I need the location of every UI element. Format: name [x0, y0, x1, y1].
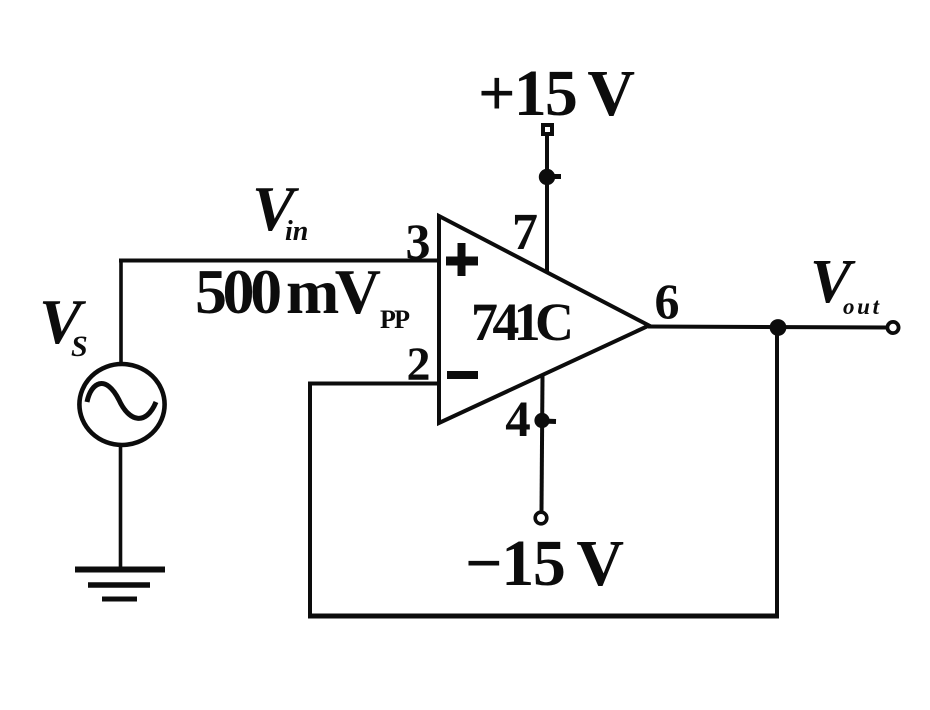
wire feedback left vertical	[308, 382, 312, 619]
wire feedback right vertical	[775, 327, 779, 619]
wire source bottom vertical	[119, 445, 123, 569]
label VS	[39, 286, 88, 363]
wire pin 2 horizontal	[308, 382, 439, 386]
op-amp U1 triangle	[439, 216, 649, 423]
wire pin 7 vertical	[545, 134, 549, 272]
junction dot output node	[770, 319, 787, 336]
terminal Vout open circle	[887, 322, 898, 333]
label Vin	[252, 173, 308, 247]
terminal +15V open square	[543, 125, 552, 134]
svg-text:PP: PP	[380, 305, 410, 334]
svg-text:3: 3	[406, 213, 431, 269]
svg-text:6: 6	[655, 273, 680, 329]
svg-text:S: S	[71, 330, 88, 363]
svg-text:2: 2	[407, 338, 431, 391]
wire output (pin 6)	[648, 327, 889, 328]
ground	[75, 570, 165, 600]
wire source top vertical	[119, 259, 123, 363]
svg-text:in: in	[285, 216, 308, 247]
terminal -15V open circle	[535, 512, 547, 524]
label Vout	[810, 248, 880, 319]
svg-text:500 mV: 500 mV	[195, 256, 381, 327]
svg-text:out: out	[843, 294, 880, 319]
wire feedback bottom horizontal	[308, 614, 779, 619]
wire pin 4 vertical	[542, 376, 543, 511]
svg-text:4: 4	[505, 392, 531, 448]
label 500 mVpp	[195, 256, 410, 334]
op-amp minus input symbol	[447, 371, 478, 379]
op-amp plus input symbol	[446, 243, 478, 276]
junction dot pin 7	[539, 169, 561, 185]
voltage source VS circle	[79, 364, 164, 445]
svg-text:741C: 741C	[471, 292, 574, 352]
svg-text:+15 V: +15 V	[478, 57, 635, 130]
wire Vin horizontal (pin 3 input)	[119, 259, 439, 263]
svg-text:−15 V: −15 V	[465, 527, 624, 600]
svg-text:7: 7	[512, 204, 538, 261]
junction dot pin 4	[534, 413, 556, 428]
voltage source VS sine wave	[87, 384, 156, 419]
